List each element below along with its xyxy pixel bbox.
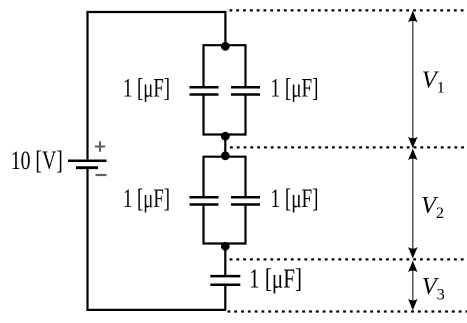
wire: link between pairs <box>224 136 226 156</box>
capacitor C5 plates <box>210 276 240 285</box>
arrow V1 top head <box>408 11 417 22</box>
svg-text:1 [μF]: 1 [μF] <box>271 74 319 103</box>
wire: from second pair down to single capacitor <box>224 246 226 276</box>
node: top junction of first parallel pair <box>221 42 230 51</box>
node line: top dotted reference <box>230 9 467 11</box>
arrow V3 shaft <box>412 268 414 303</box>
svg-text:1 [μF]: 1 [μF] <box>271 184 319 213</box>
wire: second pair top bar <box>204 156 246 158</box>
svg-text:10 [V]: 10 [V] <box>11 146 63 175</box>
arrow V1 bottom head <box>408 137 417 149</box>
arrow V3 bottom head <box>408 299 417 311</box>
wire: first pair right branch lower <box>244 95 246 136</box>
wire: second pair right branch lower <box>244 205 246 245</box>
wire: first pair left branch upper <box>202 44 204 87</box>
node: bottom junction of first pair <box>221 132 230 141</box>
arrow V3 top head <box>408 261 417 273</box>
battery: short negative plate <box>76 166 98 169</box>
wire: second pair right branch upper <box>244 156 246 197</box>
svg-text:1 [μF]: 1 [μF] <box>123 184 170 213</box>
arrow V2 bottom head <box>408 247 417 259</box>
svg-text:V1: V1 <box>422 66 445 96</box>
wire: second pair left branch upper <box>202 156 204 197</box>
svg-text:V3: V3 <box>422 273 445 303</box>
wire: second pair left branch lower <box>202 205 204 245</box>
svg-text:1 [μF]: 1 [μF] <box>249 264 302 294</box>
battery plus sign <box>95 141 105 151</box>
capacitor C3 left plates <box>190 197 219 204</box>
node line: bottom dotted reference <box>228 310 467 312</box>
capacitor C2 right plates <box>231 87 260 94</box>
node: top junction of second pair <box>221 151 230 160</box>
capacitor C1 left plates <box>190 87 219 94</box>
node line: dotted reference between pair1 and pair2 <box>230 146 467 148</box>
wire: first pair top bar <box>204 44 246 46</box>
wire: left wire below battery, bottom wire <box>88 169 227 310</box>
battery V1s 10V: long positive plate <box>68 159 107 162</box>
wire: second pair bottom bar <box>204 242 246 244</box>
wire: first pair bottom bar <box>204 133 246 135</box>
arrow V2 shaft <box>412 157 414 251</box>
wire: top wire from battery top to right branch <box>88 12 226 159</box>
wire: from single capacitor to bottom wire <box>224 285 226 310</box>
node line: dotted reference below pair2 <box>230 258 467 260</box>
wire: first pair left branch lower <box>202 95 204 136</box>
node: bottom junction of second pair <box>221 242 230 251</box>
capacitor C4 right plates <box>231 197 260 204</box>
svg-text:1 [μF]: 1 [μF] <box>123 74 170 103</box>
svg-text:V2: V2 <box>421 192 444 222</box>
arrow V2 top head <box>408 149 417 161</box>
battery minus sign <box>96 174 107 176</box>
wire: first pair right branch upper <box>244 44 246 87</box>
arrow V1 shaft <box>412 20 414 139</box>
